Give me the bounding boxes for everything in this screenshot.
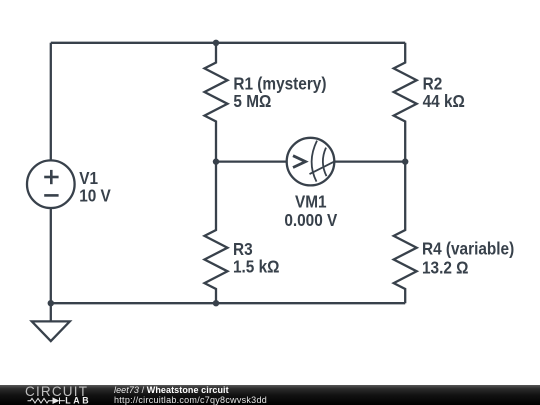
svg-text:10 V: 10 V xyxy=(79,185,111,205)
svg-text:0.000 V: 0.000 V xyxy=(284,210,337,230)
svg-text:R4 (variable): R4 (variable) xyxy=(422,239,514,259)
svg-text:44 kΩ: 44 kΩ xyxy=(423,91,465,111)
svg-text:13.2 Ω: 13.2 Ω xyxy=(422,257,468,277)
svg-text:5 MΩ: 5 MΩ xyxy=(233,91,271,111)
svg-text:VM1: VM1 xyxy=(295,192,327,212)
svg-text:LAB: LAB xyxy=(65,395,91,405)
svg-text:http://circuitlab.com/c7qy8cwv: http://circuitlab.com/c7qy8cwvsk3dd xyxy=(114,395,267,405)
svg-text:leet73 / Wheatstone circuit: leet73 / Wheatstone circuit xyxy=(114,385,229,395)
svg-text:1.5 kΩ: 1.5 kΩ xyxy=(233,257,279,277)
